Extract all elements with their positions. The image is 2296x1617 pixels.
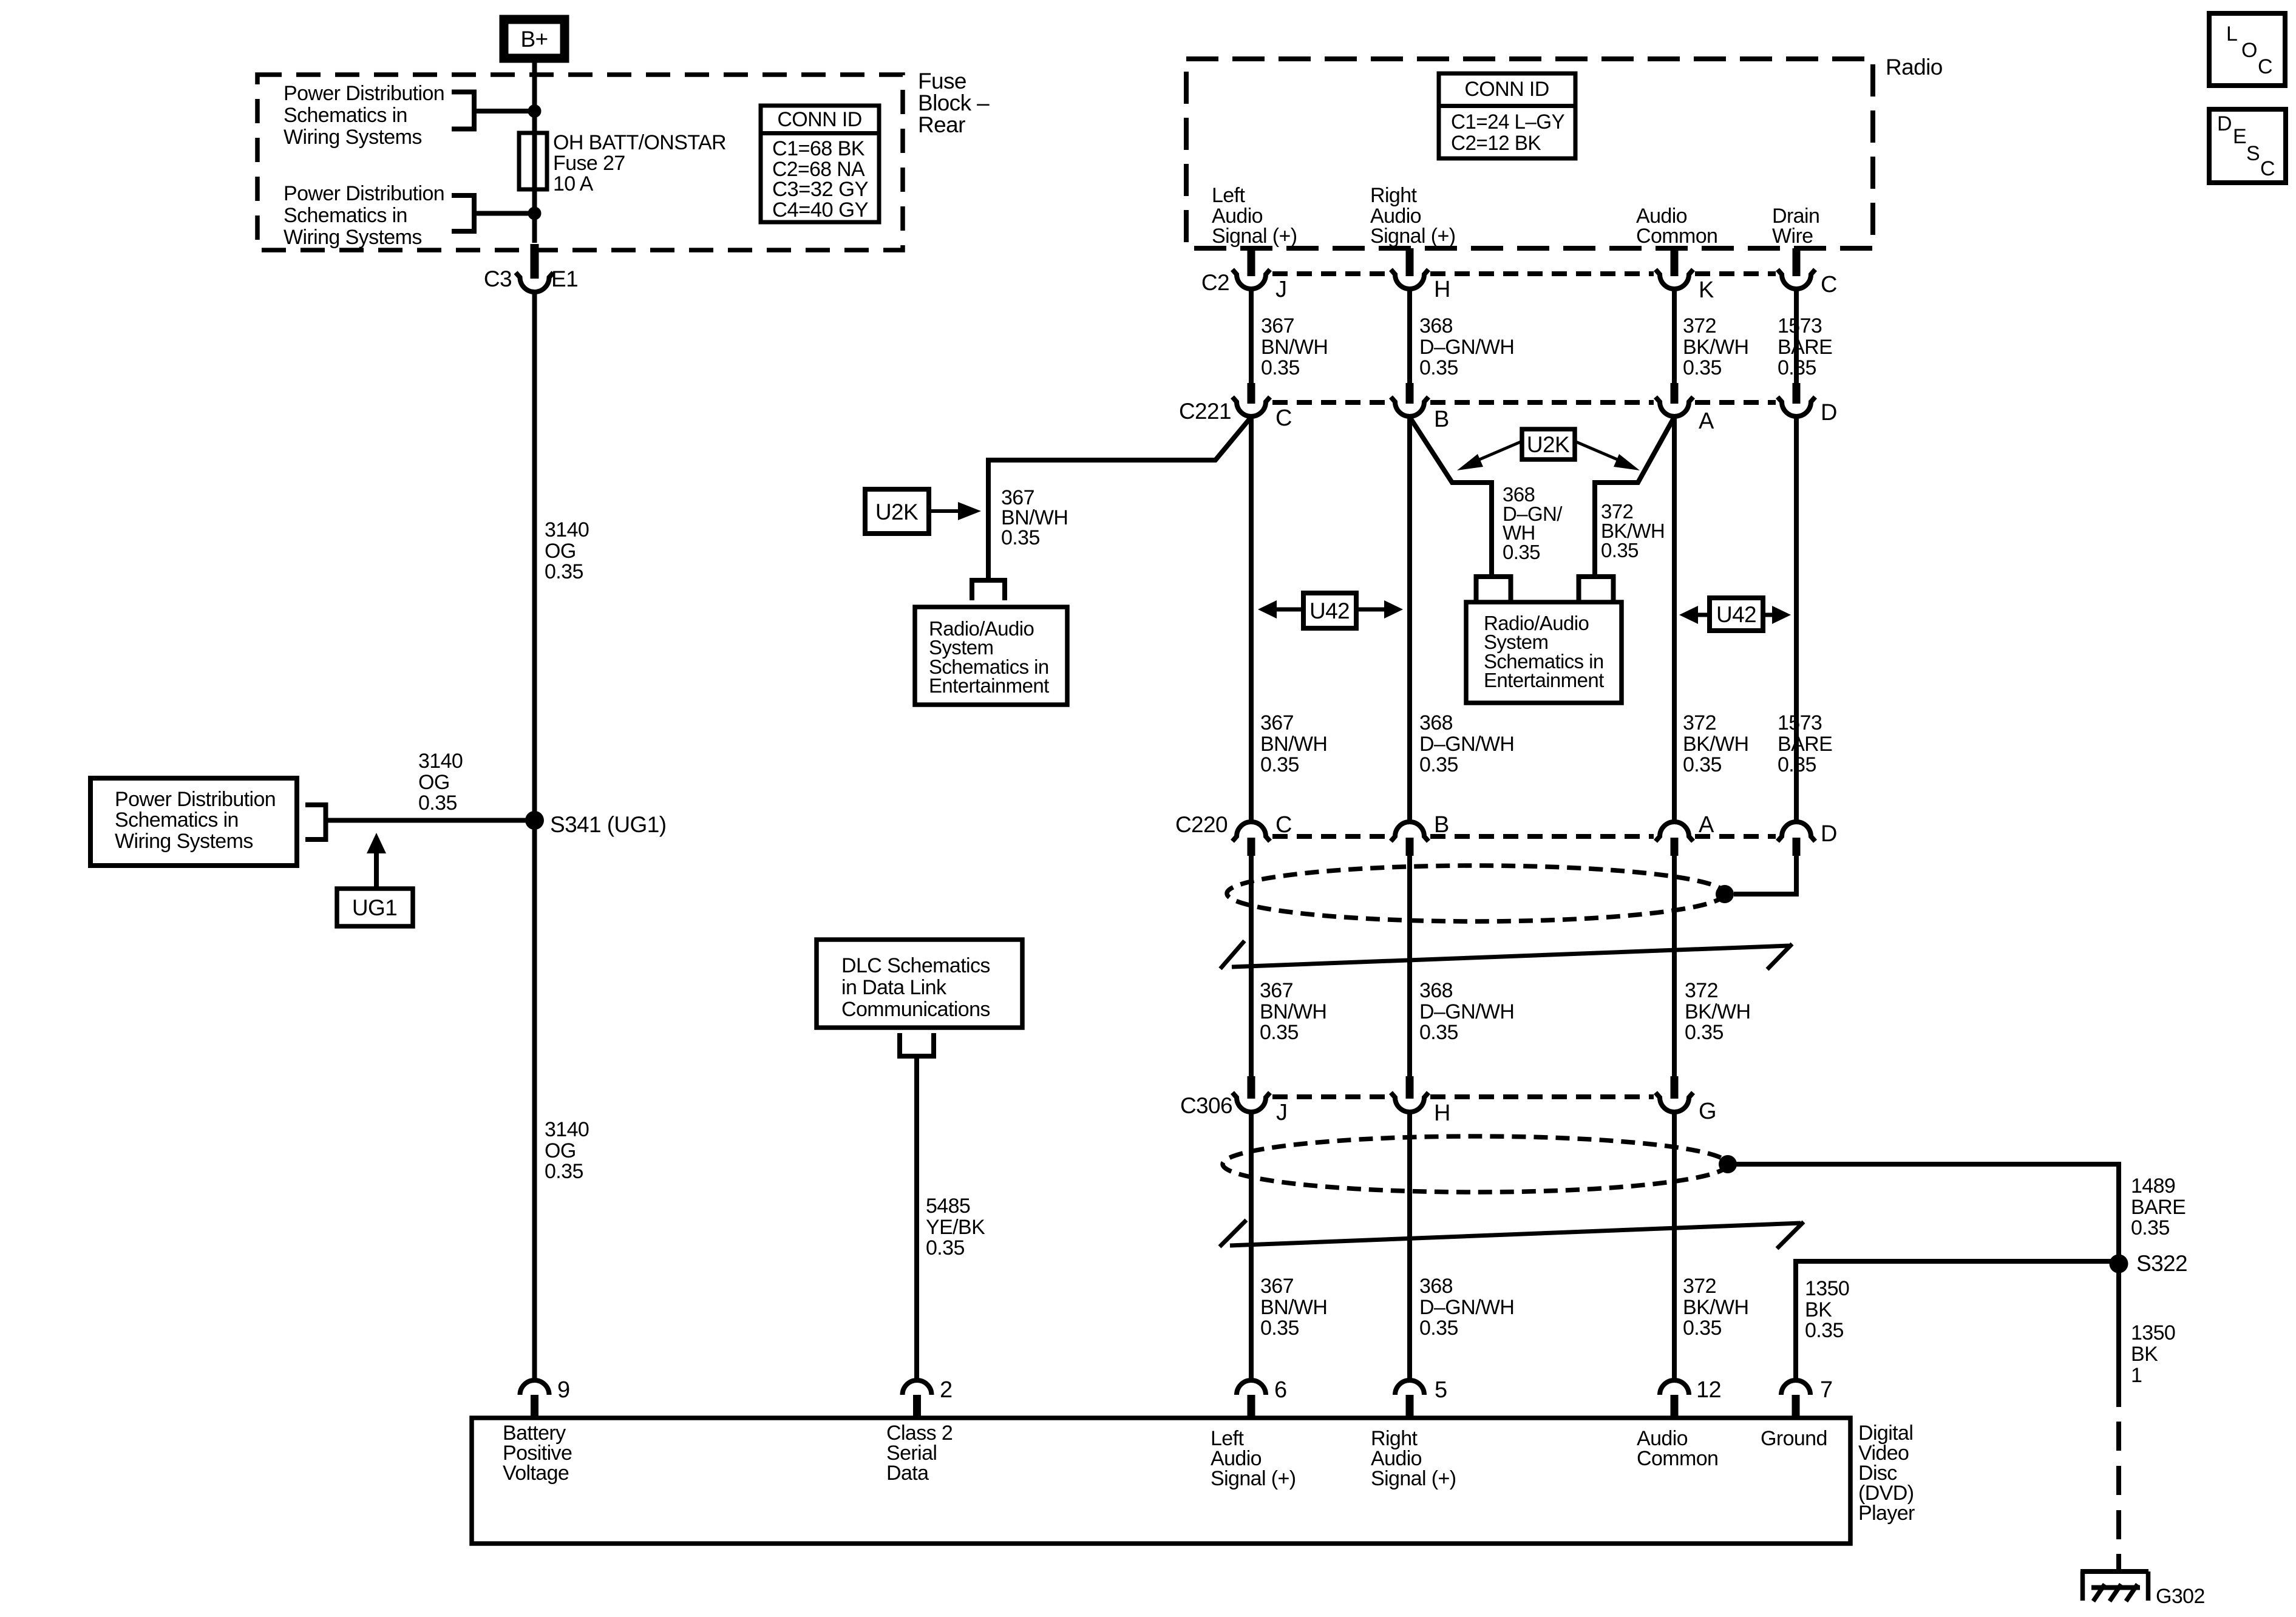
svg-text:Common: Common [1636, 225, 1717, 248]
bracket above center Radio/Audio box (left stub) [1476, 577, 1511, 600]
svg-text:B: B [1434, 812, 1449, 838]
C220 cup C [1232, 822, 1270, 841]
svg-text:S: S [2246, 142, 2260, 165]
wire label 368 D-GN/ WH 0.35 (center splice) [1503, 483, 1563, 563]
radio pin label Audio Common [1636, 205, 1717, 248]
wires C306 down to DVD pins [1249, 1112, 1254, 1381]
svg-text:367: 367 [1260, 1275, 1294, 1298]
svg-text:C221: C221 [1179, 399, 1231, 424]
svg-text:L: L [2226, 22, 2237, 46]
svg-text:BN/WH: BN/WH [1260, 1296, 1327, 1319]
svg-text:BK: BK [1805, 1298, 1832, 1321]
svg-text:J: J [1276, 1100, 1287, 1125]
svg-text:A: A [1699, 408, 1714, 434]
power distribution label 1 [284, 82, 444, 149]
bracket label 2 [452, 195, 474, 231]
svg-text:7: 7 [1820, 1377, 1833, 1403]
wire C3 to S341 [532, 290, 537, 820]
svg-text:367: 367 [1260, 979, 1293, 1002]
node B+ [504, 19, 565, 58]
svg-text:Signal (+): Signal (+) [1211, 1467, 1296, 1490]
svg-text:Power Distribution: Power Distribution [115, 788, 276, 811]
svg-text:0.35: 0.35 [1778, 356, 1816, 379]
svg-text:3140: 3140 [545, 1118, 589, 1141]
wire label 1489 BARE 0.35 [2131, 1175, 2186, 1239]
splice dot on ellipse 2 [1719, 1155, 1737, 1173]
svg-text:2: 2 [940, 1377, 953, 1403]
C2 connector row dashed line [1272, 271, 1776, 276]
DVD title Digital Video Disc (DVD) Player [1858, 1422, 1915, 1525]
svg-text:0.35: 0.35 [1805, 1319, 1844, 1342]
svg-text:Wiring Systems: Wiring Systems [115, 830, 253, 853]
C306 cup J [1232, 1093, 1270, 1112]
svg-text:3140: 3140 [418, 750, 463, 773]
svg-text:BARE: BARE [1778, 733, 1832, 756]
C221 connector row dashed line [1272, 400, 1776, 405]
wire label 1350 BK 1 [2131, 1321, 2175, 1387]
svg-text:BK/WH: BK/WH [1683, 733, 1748, 756]
DVD pin 2 cup [903, 1380, 932, 1395]
svg-text:Fuse: Fuse [918, 69, 966, 93]
svg-text:BARE: BARE [2131, 1196, 2186, 1219]
wire label 372 BK/WH 0.35 (center splice) [1601, 500, 1665, 561]
C2 cup J [1232, 269, 1270, 289]
svg-text:G: G [1699, 1099, 1716, 1124]
svg-text:1: 1 [2131, 1364, 2142, 1387]
wires C2 to C221 [1249, 289, 1254, 384]
svg-text:UG1: UG1 [352, 895, 397, 920]
svg-text:C: C [1821, 272, 1837, 297]
svg-text:C1=24 L–GY: C1=24 L–GY [1451, 110, 1564, 134]
U2K box (left) [865, 489, 929, 534]
radio pin label Left Audio Signal (+) [1212, 184, 1297, 248]
U2K box (center) [1522, 429, 1575, 459]
svg-text:BARE: BARE [1778, 336, 1832, 359]
svg-text:A: A [1699, 812, 1714, 838]
svg-text:U42: U42 [1309, 598, 1350, 623]
svg-text:Power Distribution: Power Distribution [284, 182, 444, 205]
wire label 3140 OG 0.35 (lower) [545, 1118, 589, 1183]
radio pin label Right Audio Signal (+) [1370, 184, 1455, 248]
twist slash 2 [1220, 1220, 1804, 1249]
svg-text:0.35: 0.35 [1001, 526, 1040, 549]
svg-text:0.35: 0.35 [1683, 753, 1722, 776]
svg-text:Signal (+): Signal (+) [1370, 225, 1455, 248]
svg-text:9: 9 [557, 1377, 570, 1403]
DVD label Battery Positive Voltage [503, 1422, 572, 1485]
svg-text:OG: OG [418, 771, 450, 794]
splice S341 [525, 811, 544, 830]
wire through fuse [532, 111, 537, 243]
svg-text:Common: Common [1637, 1447, 1718, 1470]
svg-text:0.35: 0.35 [418, 792, 457, 815]
svg-text:1573: 1573 [1778, 314, 1822, 337]
svg-text:C: C [1275, 812, 1292, 838]
DVD label Right Audio Signal (+) [1371, 1427, 1456, 1490]
C221 cup B [1391, 397, 1428, 416]
splice S322 [2110, 1255, 2128, 1273]
svg-text:DLC Schematics: DLC Schematics [841, 954, 990, 977]
Radio/Audio box (left) [915, 607, 1067, 705]
bracket lower-left box [305, 805, 326, 839]
wire label set1 372 BK/WH 0.35 [1683, 314, 1748, 379]
svg-text:372: 372 [1683, 711, 1716, 734]
wire C221-B branch to center splice [1410, 417, 1492, 574]
bracket below DLC box [900, 1033, 934, 1056]
svg-text:Fuse 27: Fuse 27 [553, 152, 625, 175]
svg-text:0.35: 0.35 [1778, 753, 1816, 776]
svg-text:C2=12 BK: C2=12 BK [1451, 132, 1541, 155]
svg-text:1573: 1573 [1778, 711, 1822, 734]
fuse F27 [519, 133, 547, 189]
bracket label 1 [452, 92, 474, 129]
U2K arrow right-down [1575, 441, 1622, 461]
svg-text:Communications: Communications [841, 998, 990, 1021]
svg-text:CONN ID: CONN ID [1464, 78, 1549, 101]
fuse block label [918, 69, 990, 137]
svg-text:0.35: 0.35 [1503, 541, 1540, 563]
svg-text:Right: Right [1370, 184, 1418, 207]
svg-text:OG: OG [545, 1139, 576, 1162]
svg-text:Ground: Ground [1761, 1427, 1827, 1450]
svg-text:BK/WH: BK/WH [1683, 1296, 1748, 1319]
DLC schematics box [817, 940, 1022, 1028]
svg-text:C3=32 GY: C3=32 GY [772, 178, 868, 201]
svg-text:Power Distribution: Power Distribution [284, 82, 444, 105]
DVD pin 5 cup [1395, 1380, 1424, 1395]
wires C221 down [1249, 417, 1254, 822]
svg-text:OH BATT/ONSTAR: OH BATT/ONSTAR [553, 131, 726, 154]
wire box to S341 [326, 818, 535, 823]
svg-text:0.35: 0.35 [545, 560, 583, 583]
svg-text:Wiring Systems: Wiring Systems [284, 226, 422, 249]
ground G302 [2080, 1571, 2148, 1601]
svg-text:O: O [2241, 39, 2257, 62]
svg-text:BN/WH: BN/WH [1260, 1000, 1326, 1023]
wire label set2 372 BK/WH 0.35 [1683, 711, 1748, 776]
svg-text:C1=68 BK: C1=68 BK [772, 137, 865, 160]
svg-text:J: J [1275, 277, 1286, 302]
power distribution schematics box (lower left) [90, 778, 297, 866]
svg-text:U2K: U2K [875, 500, 919, 524]
svg-text:BN/WH: BN/WH [1260, 733, 1327, 756]
DESC box [2209, 109, 2286, 183]
twist slash 1 [1220, 941, 1792, 969]
C221 cup D [1778, 397, 1815, 416]
svg-text:Signal (+): Signal (+) [1212, 225, 1297, 248]
C2 cup H [1391, 269, 1428, 289]
svg-text:367: 367 [1261, 314, 1294, 337]
svg-text:B: B [1434, 407, 1449, 432]
svg-text:368: 368 [1419, 314, 1453, 337]
svg-text:1489: 1489 [2131, 1175, 2175, 1198]
wire label 3140 OG 0.35 (left of S341) [418, 750, 463, 815]
DVD label Left Audio Signal (+) [1211, 1427, 1296, 1490]
svg-text:BK/WH: BK/WH [1683, 336, 1748, 359]
svg-text:BK/WH: BK/WH [1685, 1000, 1750, 1023]
svg-text:Schematics in: Schematics in [284, 204, 407, 227]
wire C221-A branch to center splice [1595, 417, 1674, 574]
wire DLC to DVD pin 2 [914, 1059, 919, 1381]
twisted pair ellipse 2 [1223, 1136, 1728, 1192]
C306 connector row dashed line [1272, 1094, 1654, 1099]
wire B+ to fuse block [532, 63, 537, 113]
Radio/Audio box (center) [1466, 602, 1622, 703]
C220 cup B [1391, 822, 1428, 841]
svg-text:C: C [2260, 157, 2275, 180]
svg-text:E: E [2233, 125, 2246, 148]
C306 cup G [1656, 1093, 1693, 1112]
wire label set3 367 BN/WH 0.35 [1260, 979, 1326, 1044]
C2 cup C [1778, 269, 1815, 289]
svg-text:1350: 1350 [1805, 1277, 1849, 1300]
svg-text:368: 368 [1419, 979, 1453, 1002]
DVD pin 7 cup [1781, 1380, 1810, 1395]
svg-text:Wiring Systems: Wiring Systems [284, 126, 422, 149]
svg-text:C220: C220 [1175, 812, 1228, 837]
svg-text:0.35: 0.35 [1601, 539, 1639, 561]
stubs above C306 cups [1248, 1076, 1255, 1099]
svg-text:C3: C3 [484, 266, 512, 291]
svg-text:Left: Left [1212, 184, 1245, 207]
svg-text:0.35: 0.35 [2131, 1216, 2170, 1239]
svg-text:0.35: 0.35 [1260, 1021, 1299, 1044]
svg-text:C4=40 GY: C4=40 GY [772, 198, 868, 222]
connector C3/E1 stub [531, 244, 539, 279]
svg-text:YE/BK: YE/BK [926, 1216, 985, 1239]
C221 cup A [1656, 397, 1693, 416]
svg-text:CONN ID: CONN ID [777, 108, 861, 131]
wire label 3140 OG 0.35 (upper) [545, 518, 589, 583]
wire bracket2 to junction [474, 211, 535, 216]
dashed wire to G302 [2116, 1422, 2121, 1571]
svg-text:U2K: U2K [1527, 432, 1570, 457]
svg-text:3140: 3140 [545, 518, 589, 541]
svg-text:0.35: 0.35 [545, 1160, 583, 1183]
fuse block CONN ID table [761, 106, 879, 222]
wire label set4 367 BN/WH 0.35 [1260, 1275, 1327, 1340]
U42 symbol (right, between A and D wires) [1679, 598, 1791, 631]
wire label set3 368 D-GN/WH 0.35 [1419, 979, 1514, 1044]
svg-text:D–GN/WH: D–GN/WH [1419, 336, 1514, 359]
svg-text:0.35: 0.35 [1419, 1021, 1458, 1044]
svg-text:in Data Link: in Data Link [841, 976, 947, 999]
power distribution label 2 [284, 182, 444, 249]
svg-text:0.35: 0.35 [1419, 1317, 1458, 1340]
svg-text:368: 368 [1419, 711, 1453, 734]
svg-text:B+: B+ [520, 27, 548, 52]
C2 cup K [1656, 269, 1693, 289]
wires C220 down to C306 [1249, 855, 1254, 1078]
svg-text:0.35: 0.35 [926, 1236, 965, 1259]
svg-text:D: D [1821, 400, 1837, 425]
svg-text:0.35: 0.35 [1261, 356, 1300, 379]
C220 cup D [1778, 822, 1815, 841]
DVD pin 6 cup [1237, 1380, 1266, 1395]
wire label set2 1573 BARE 0.35 [1778, 711, 1832, 776]
svg-text:S341 (UG1): S341 (UG1) [550, 812, 666, 837]
svg-text:D–GN/WH: D–GN/WH [1419, 733, 1514, 756]
svg-text:Rear: Rear [918, 112, 965, 137]
twisted pair ellipse 1 [1227, 866, 1725, 921]
wire S341 to DVD pin 9 [532, 820, 537, 1381]
fuse 27 label [553, 131, 726, 195]
svg-text:5: 5 [1435, 1377, 1447, 1403]
DVD label Class 2 Serial Data [886, 1422, 953, 1485]
wire label 1350 BK 0.35 [1805, 1277, 1849, 1342]
wire S322 to ground pin 7 [2116, 1264, 2121, 1407]
svg-text:Data: Data [886, 1462, 929, 1485]
wire label 367 BN/WH 0.35 (U2K branch) [1001, 486, 1068, 549]
svg-text:D: D [1821, 821, 1837, 847]
bracket above left Radio/Audio box [972, 580, 1005, 600]
drain wire to S322 [1735, 1164, 2119, 1264]
svg-text:Player: Player [1858, 1502, 1915, 1525]
svg-text:Entertainment: Entertainment [1484, 669, 1604, 691]
svg-text:5485: 5485 [926, 1195, 970, 1218]
svg-text:368: 368 [1419, 1275, 1453, 1298]
DVD pin 12 cup [1660, 1380, 1689, 1395]
UG1 box [337, 889, 413, 926]
svg-text:0.35: 0.35 [1260, 1317, 1299, 1340]
svg-text:0.35: 0.35 [1683, 1317, 1722, 1340]
DVD label Audio Common [1637, 1427, 1718, 1470]
svg-text:S322: S322 [2136, 1251, 2187, 1276]
svg-text:OG: OG [545, 540, 576, 563]
svg-text:0.35: 0.35 [1419, 753, 1458, 776]
wire bracket1 to junction [474, 109, 535, 114]
svg-text:12: 12 [1696, 1377, 1721, 1403]
svg-text:E1: E1 [551, 266, 578, 291]
svg-text:0.35: 0.35 [1683, 356, 1722, 379]
svg-text:C: C [1275, 405, 1292, 431]
svg-text:0.35: 0.35 [1419, 356, 1458, 379]
svg-text:BN/WH: BN/WH [1261, 336, 1328, 359]
C220 cup A [1656, 822, 1693, 841]
Radio dashed box [1186, 59, 1873, 248]
wire label 5485 YE/BK 0.35 [926, 1195, 985, 1259]
bracket above center Radio/Audio box (right stub) [1579, 577, 1614, 600]
svg-text:C306: C306 [1180, 1093, 1232, 1118]
junction [528, 207, 542, 220]
DVD player box [472, 1418, 1850, 1544]
svg-text:372: 372 [1685, 979, 1718, 1002]
svg-text:BK: BK [2131, 1343, 2158, 1366]
radio stubs to C2 cups [1248, 248, 1255, 276]
connector C3/E1 cup [516, 273, 554, 292]
wire label set4 372 BK/WH 0.35 [1683, 1275, 1748, 1340]
splice dot on ellipse 1 [1716, 885, 1734, 903]
wire label set2 368 D-GN/WH 0.35 [1419, 711, 1514, 776]
svg-text:Voltage: Voltage [503, 1462, 569, 1485]
svg-text:0.35: 0.35 [1260, 753, 1299, 776]
svg-text:Radio: Radio [1886, 55, 1943, 80]
svg-text:10 A: 10 A [553, 172, 594, 195]
LOC box [2209, 13, 2285, 86]
svg-text:0.35: 0.35 [1685, 1021, 1724, 1044]
svg-text:H: H [1434, 277, 1450, 302]
C220 connector row dashed line [1272, 834, 1776, 839]
drain wire D to twisted pair splice [1734, 855, 1796, 894]
svg-text:U42: U42 [1716, 602, 1756, 627]
svg-text:D: D [2217, 112, 2232, 135]
C221 cup C [1232, 397, 1270, 416]
wire label set3 372 BK/WH 0.35 [1685, 979, 1750, 1044]
radio CONN ID table [1439, 73, 1575, 158]
U42 symbol (left, between C and B wires) [1258, 593, 1403, 628]
wire label set4 368 D-GN/WH 0.35 [1419, 1275, 1514, 1340]
svg-text:367: 367 [1260, 711, 1294, 734]
svg-text:Wire: Wire [1772, 225, 1813, 248]
svg-text:Signal (+): Signal (+) [1371, 1467, 1456, 1490]
DVD pin 9 cup [520, 1380, 549, 1395]
svg-text:K: K [1699, 277, 1714, 303]
svg-text:D–GN/WH: D–GN/WH [1419, 1000, 1514, 1023]
junction [528, 104, 542, 118]
svg-text:D–GN/WH: D–GN/WH [1419, 1296, 1514, 1319]
wire C221-C branch to left splice [988, 417, 1251, 578]
svg-text:372: 372 [1683, 1275, 1716, 1298]
wire label set1 1573 BARE 0.35 [1778, 314, 1832, 379]
svg-text:Schematics in: Schematics in [284, 104, 407, 127]
svg-text:H: H [1434, 1100, 1450, 1126]
wire label set1 367 BN/WH 0.35 [1261, 314, 1328, 379]
fuse block - rear dashed box [257, 75, 903, 250]
svg-text:C2: C2 [1201, 270, 1229, 295]
stubs to C221 cups [1248, 383, 1255, 404]
stubs below C220 cups [1248, 838, 1255, 856]
svg-text:Block –: Block – [918, 90, 990, 115]
svg-text:Schematics in: Schematics in [115, 808, 239, 832]
svg-text:1350: 1350 [2131, 1321, 2175, 1344]
U2K arrow (left) [929, 509, 963, 513]
svg-text:6: 6 [1274, 1377, 1287, 1403]
C306 cup H [1391, 1093, 1428, 1112]
U2K arrow left-down [1475, 441, 1522, 461]
radio pin label Drain Wire [1772, 205, 1819, 248]
svg-text:372: 372 [1683, 314, 1716, 337]
svg-text:Entertainment: Entertainment [929, 674, 1049, 697]
svg-text:C: C [2258, 55, 2272, 78]
UG1 arrow [374, 853, 379, 889]
wire label set1 368 D-GN/WH 0.35 [1419, 314, 1514, 379]
wire label set2 367 BN/WH 0.35 [1260, 711, 1327, 776]
svg-text:G302: G302 [2156, 1585, 2205, 1608]
